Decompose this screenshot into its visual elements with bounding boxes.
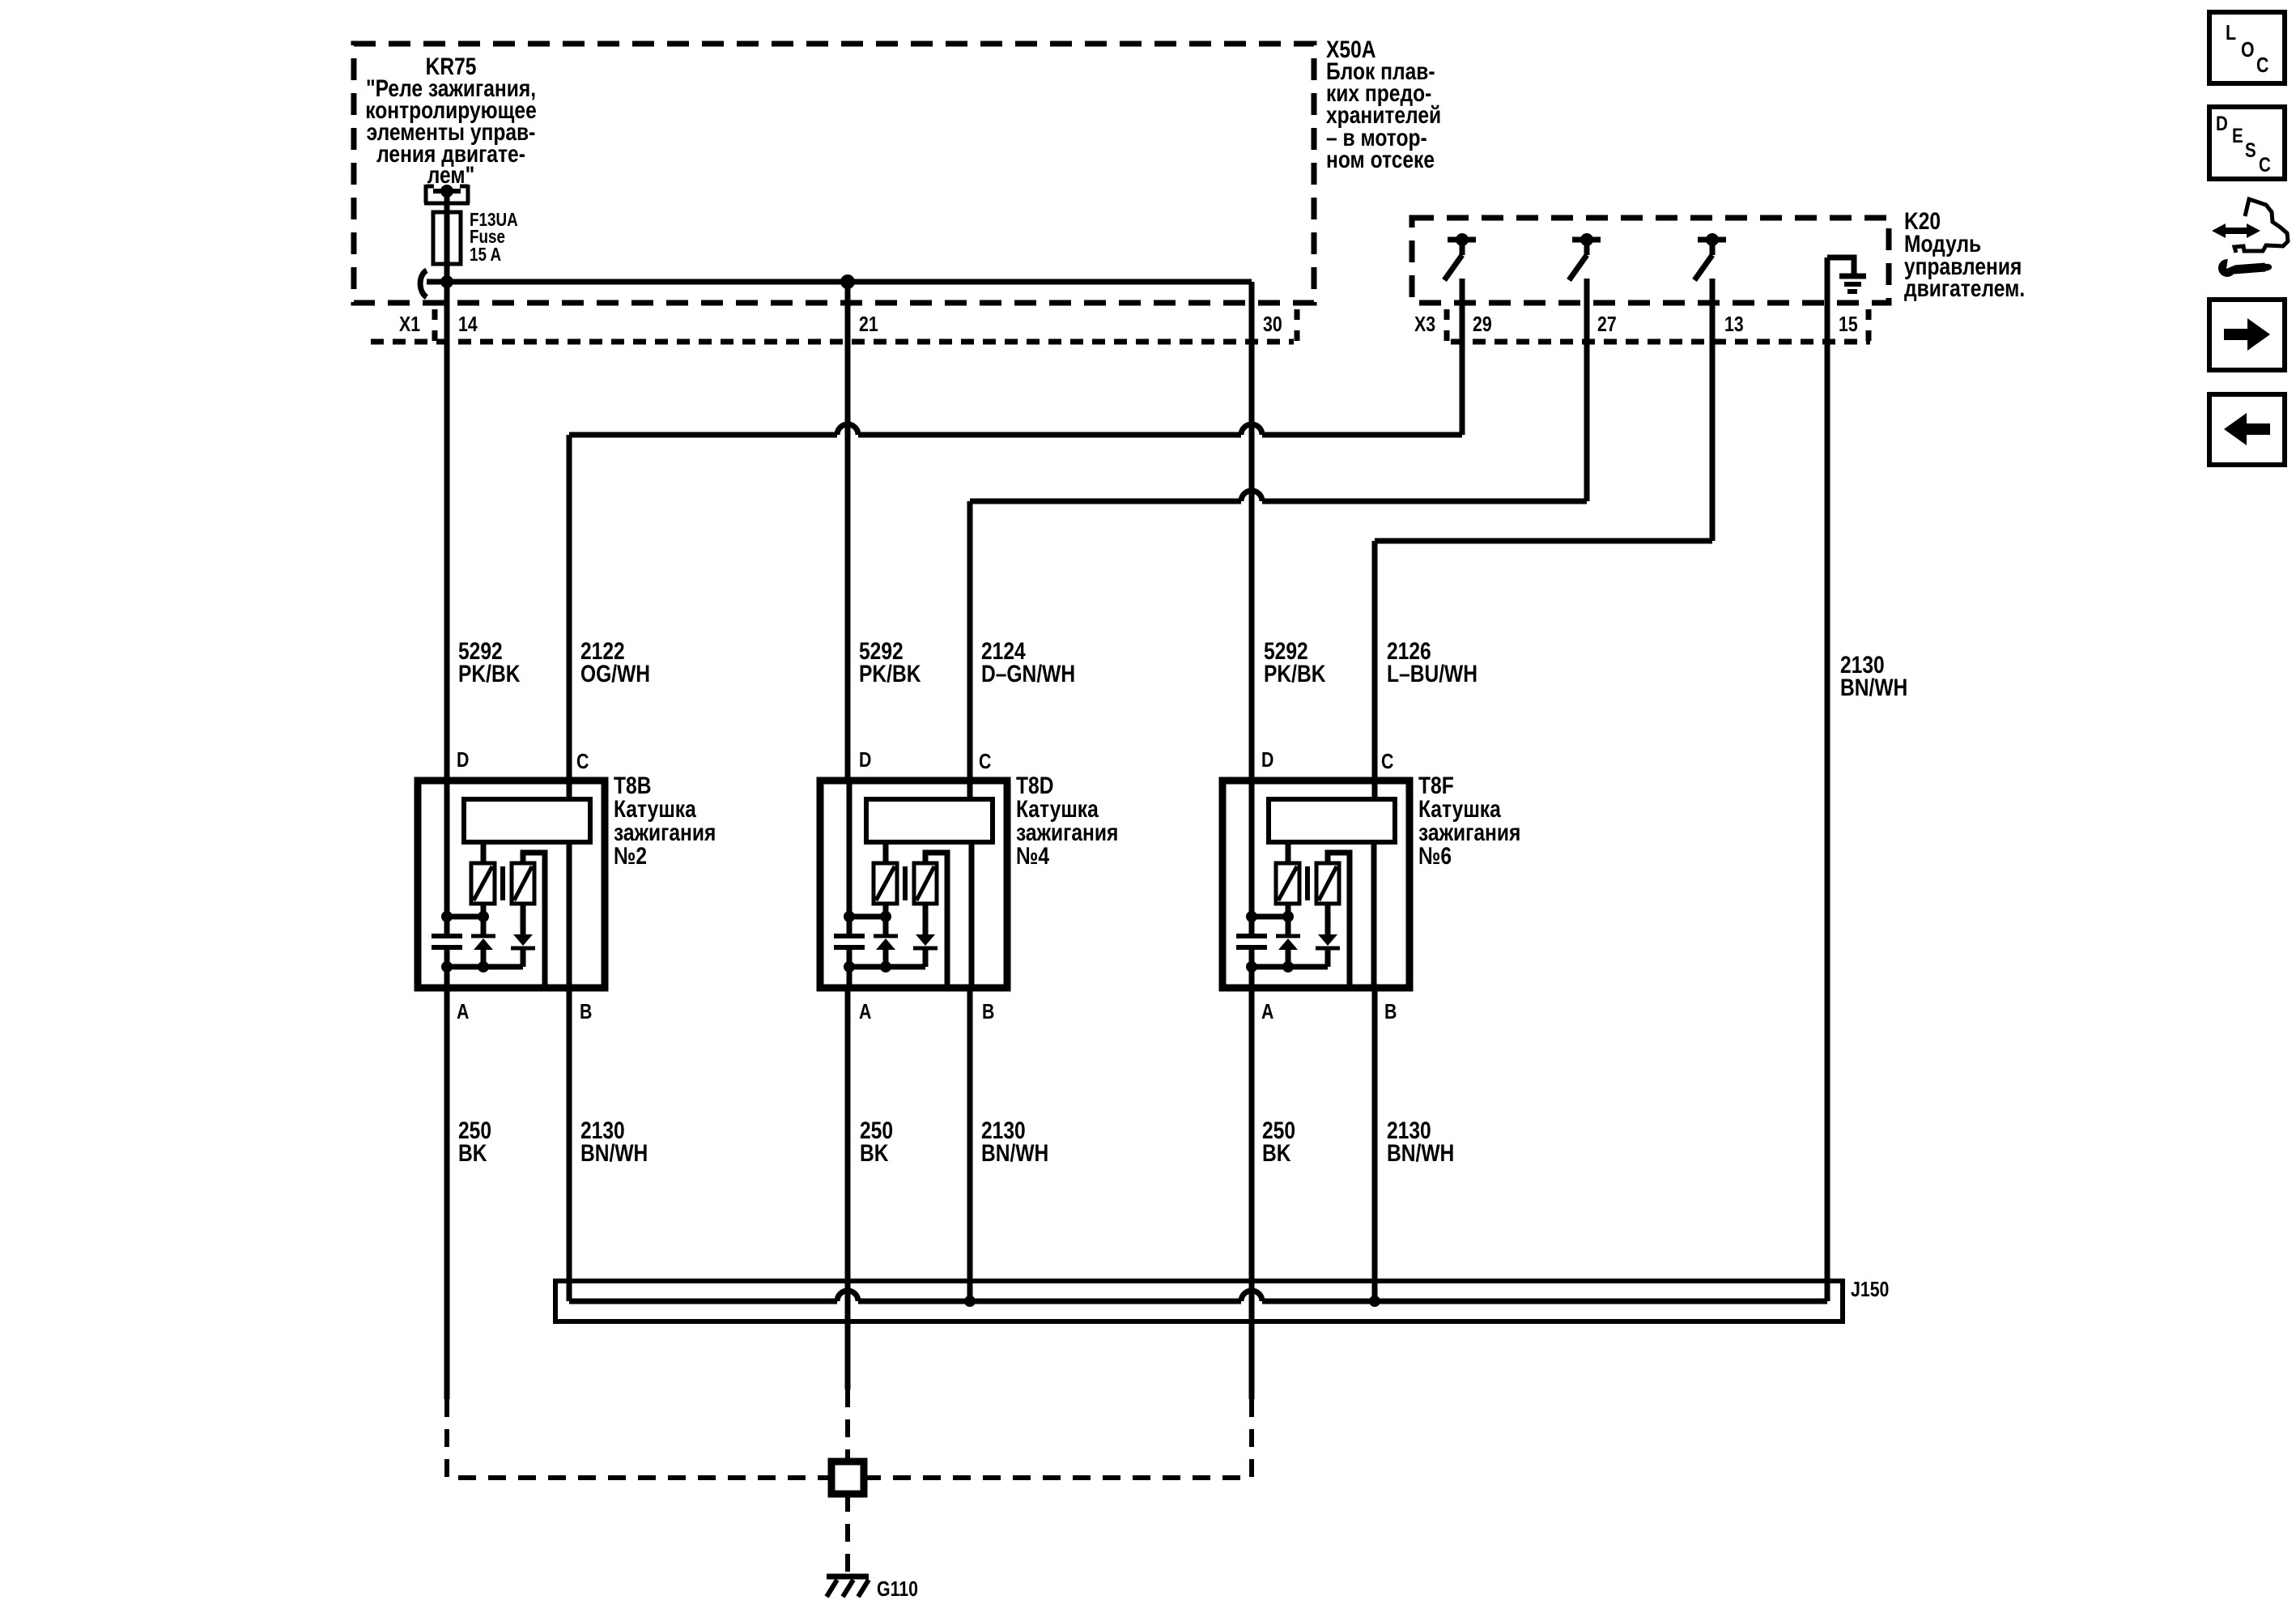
coil T8D winding element right [914, 863, 937, 904]
splice square at G110 run [831, 1462, 864, 1494]
X3 separator right [1866, 309, 1872, 349]
junction node coil3 B on J150 [1369, 1296, 1380, 1307]
svg-text:L: L [2226, 21, 2236, 45]
dashed ground run coil2 A [845, 1389, 850, 1462]
svg-text:BK: BK [458, 1139, 487, 1167]
svg-text:C: C [979, 750, 991, 774]
icon vehicle service (car, arrow, wrench) [2212, 199, 2288, 277]
svg-text:15: 15 [1839, 313, 1858, 337]
ground symbol inside K20 (pin 15) [1827, 257, 1866, 291]
coil T8B primary winding box [464, 799, 590, 842]
coil T8F secondary return lead [1328, 853, 1350, 986]
svg-text:C: C [1381, 750, 1393, 774]
icon LOC [2209, 12, 2285, 83]
coil T8B pin D internal wire [444, 781, 450, 936]
svg-text:лем": лем" [427, 161, 474, 189]
svg-text:29: 29 [1473, 313, 1492, 337]
svg-text:двигателем.: двигателем. [1904, 274, 2025, 302]
svg-text:G110: G110 [877, 1577, 918, 1602]
label 2130 BN/WH coil3 [1387, 1117, 1454, 1167]
svg-text:№6: №6 [1418, 842, 1452, 870]
coil T8F pin A internal wire [1249, 947, 1255, 988]
coil T8B primary-to-igniter lead [481, 842, 487, 863]
label 5292 PK/BK coil1 [458, 637, 521, 687]
svg-text:B: B [580, 1000, 592, 1024]
svg-text:№2: №2 [614, 842, 647, 870]
coil T8B internal node bottom [441, 961, 523, 972]
K20 label [1904, 207, 2025, 302]
svg-text:PK/BK: PK/BK [859, 660, 921, 687]
coil T8D winding element left [874, 863, 897, 904]
svg-text:BK: BK [860, 1139, 889, 1167]
wire 250 BK coil2 A [845, 988, 851, 1389]
svg-text:C: C [2259, 153, 2271, 176]
svg-text:13: 13 [1724, 313, 1744, 337]
svg-text:BN/WH: BN/WH [1387, 1139, 1454, 1167]
svg-text:BN/WH: BN/WH [981, 1139, 1048, 1167]
wire 5292 pin21 to coil2 D [845, 282, 851, 781]
coil T8B core bar [500, 866, 505, 900]
svg-text:L–BU/WH: L–BU/WH [1387, 660, 1478, 687]
wire 5292 pin14 to coil1 D [444, 282, 450, 781]
coil T8D title [1016, 772, 1118, 870]
driver output pin 29 [1444, 233, 1476, 280]
ignition coil T8B (No.2) [418, 748, 716, 1024]
label 2130 BN/WH coil1 [580, 1117, 648, 1167]
wire 2122 horizontal with hops [569, 424, 1462, 435]
coil T8D pin D internal wire [847, 781, 852, 936]
coil T8D secondary return lead [925, 853, 947, 986]
coil T8F case [1222, 781, 1409, 988]
coil T8D case [820, 781, 1007, 988]
svg-text:D: D [1261, 748, 1273, 772]
wire 5292 pin30 to coil3 D [1249, 282, 1255, 781]
svg-text:D–GN/WH: D–GN/WH [981, 660, 1075, 687]
svg-text:D: D [859, 748, 871, 772]
fuse block X50A dashed box [354, 44, 1314, 303]
coil T8B capacitor [432, 936, 462, 947]
coil T8D primary winding box [866, 799, 993, 842]
coil T8B zener diode up [471, 904, 495, 967]
coil T8D diode down [913, 904, 938, 967]
coil T8F primary winding box [1269, 799, 1395, 842]
connector strip X1: dotted line [371, 339, 1294, 345]
connector clip at pin 14 [420, 270, 427, 297]
wire relay to fuse [444, 191, 450, 212]
X50A label [1326, 36, 1441, 173]
splice J150 internal bus with hops [569, 1291, 1827, 1301]
svg-text:A: A [457, 1000, 469, 1024]
svg-text:D: D [457, 748, 469, 772]
coil T8F zener diode up [1276, 904, 1300, 967]
ground G110 symbol [827, 1577, 869, 1597]
coil T8B pin B internal wire [567, 842, 572, 988]
coil T8F internal node top [1246, 911, 1294, 922]
wire 2130 pin15 to splice J150 [1825, 257, 1830, 1301]
coil T8B diode down [511, 904, 535, 967]
svg-text:PK/BK: PK/BK [1264, 660, 1326, 687]
label 2130 BN/WH coil2 [981, 1117, 1048, 1167]
coil T8B title [614, 772, 716, 870]
label 5292 PK/BK coil3 [1264, 637, 1326, 687]
relay KR75 contact (cup symbol) [424, 185, 470, 203]
svg-text:B: B [982, 1000, 994, 1024]
coil T8D primary-to-igniter lead [883, 842, 889, 863]
ignition coil T8F (No.6) [1222, 748, 1520, 1024]
svg-text:21: 21 [859, 313, 878, 337]
coil T8B pin A internal wire [444, 947, 450, 988]
dashed wire square to ground [845, 1494, 850, 1577]
wire 2122 to coil1 C [567, 435, 572, 800]
coil T8B winding element right [512, 863, 534, 904]
label 2130 BN/WH right [1840, 651, 1907, 701]
coil T8D core bar [903, 866, 908, 900]
dashed ground run coil3 A [864, 1399, 1252, 1478]
ignition coil T8D (No.4) [820, 748, 1118, 1024]
wire 2122 pin29 vertical [1460, 279, 1465, 435]
driver output pin 13 [1694, 233, 1726, 280]
svg-text:27: 27 [1597, 313, 1617, 337]
svg-text:15 A: 15 A [470, 245, 501, 265]
svg-text:D: D [2216, 112, 2228, 134]
coil T8B internal node top [441, 911, 489, 922]
coil T8F winding element left [1276, 863, 1299, 904]
wire 2126 pin13 vertical [1710, 279, 1716, 541]
coil T8F internal node bottom [1246, 961, 1328, 972]
svg-text:J150: J150 [1851, 1278, 1889, 1302]
coil T8F pin B internal wire [1371, 842, 1377, 988]
coil T8D pin B internal wire [969, 842, 975, 988]
coil T8B case [418, 781, 605, 988]
coil T8F diode down [1316, 904, 1340, 967]
coil T8F capacitor [1236, 936, 1267, 947]
connector strip X3: dotted line [1451, 339, 1870, 345]
dashed ground run coil1 A [447, 1399, 831, 1478]
svg-text:BN/WH: BN/WH [1840, 674, 1907, 701]
coil T8B winding element left [471, 863, 495, 904]
junction node pin 21 tap [840, 274, 855, 289]
label 2122 OG/WH [580, 637, 650, 687]
wire 2126 horizontal [1375, 538, 1712, 544]
svg-text:OG/WH: OG/WH [580, 660, 650, 687]
svg-text:X1: X1 [399, 313, 420, 337]
svg-text:A: A [859, 1000, 871, 1024]
driver output pin 27 [1569, 233, 1601, 280]
wire 2126 to coil3 C [1372, 541, 1378, 800]
label 2126 L-BU/WH [1387, 637, 1478, 687]
relay KR75 label [365, 53, 537, 189]
coil T8D capacitor [834, 936, 865, 947]
svg-text:30: 30 [1263, 313, 1282, 337]
label 250 BK coil3 [1262, 1117, 1295, 1167]
X1 separator right [1295, 309, 1300, 349]
wire 250 BK coil3 A [1249, 988, 1255, 1399]
label 2124 D-GN/WH [981, 637, 1075, 687]
icon arrow right [2209, 300, 2285, 370]
coil T8D pin A internal wire [847, 947, 852, 988]
wire 2124 horizontal with hop [970, 491, 1587, 501]
coil T8F core bar [1305, 866, 1310, 900]
coil T8F winding element right [1316, 863, 1339, 904]
svg-text:S: S [2245, 138, 2256, 161]
fuse F13UA label [470, 210, 518, 265]
svg-text:C: C [576, 750, 589, 774]
wire 2130 coil2 B to J150 [967, 988, 973, 1301]
svg-text:ном отсеке: ном отсеке [1326, 146, 1435, 173]
wire 2130 coil3 B to J150 [1372, 988, 1378, 1301]
svg-text:BN/WH: BN/WH [580, 1139, 648, 1167]
junction node coil2 B on J150 [964, 1296, 976, 1307]
X3 separator left [1444, 309, 1450, 349]
coil T8D zener diode up [874, 904, 898, 967]
wire 250 BK coil1 A [444, 988, 450, 1399]
coil T8F primary-to-igniter lead [1286, 842, 1291, 863]
coil T8F pin D internal wire [1249, 781, 1255, 936]
splice pack J150 outline [555, 1281, 1843, 1321]
X1 separator left [432, 309, 438, 349]
svg-text:X3: X3 [1414, 313, 1435, 337]
wire 2124 pin27 vertical [1584, 279, 1590, 501]
svg-text:№4: №4 [1016, 842, 1050, 870]
svg-text:B: B [1384, 1000, 1397, 1024]
svg-text:E: E [2232, 124, 2243, 147]
label 250 BK coil1 [458, 1117, 491, 1167]
label 250 BK coil2 [860, 1117, 893, 1167]
label 5292 PK/BK coil2 [859, 637, 921, 687]
wire 2124 to coil2 C [967, 501, 973, 800]
svg-text:14: 14 [458, 313, 478, 337]
svg-text:O: O [2241, 38, 2255, 62]
fuse F13UA [433, 212, 461, 264]
svg-text:C: C [2256, 53, 2268, 78]
coil T8B secondary return lead [523, 853, 545, 986]
coil T8F title [1418, 772, 1520, 870]
svg-text:A: A [1261, 1000, 1273, 1024]
junction node fuse output [440, 275, 453, 288]
wire bus from fuse to pin 30 [427, 279, 1252, 285]
svg-text:BK: BK [1262, 1139, 1291, 1167]
K20 module dashed box [1412, 218, 1889, 303]
coil T8D internal node top [844, 911, 891, 922]
wire 2130 coil1 B to J150 [567, 988, 572, 1301]
icon DESC [2209, 107, 2285, 179]
coil T8D internal node bottom [844, 961, 925, 972]
icon arrow left [2209, 394, 2285, 465]
svg-text:PK/BK: PK/BK [458, 660, 521, 687]
